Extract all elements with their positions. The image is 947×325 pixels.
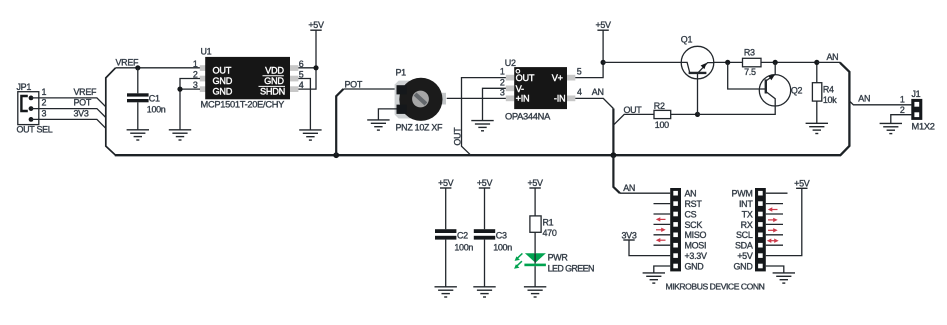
svg-text:R1: R1	[543, 217, 554, 227]
svg-text:7.5: 7.5	[744, 67, 756, 77]
wire U2 OUT down to bus	[462, 78, 508, 156]
svg-text:C1: C1	[149, 94, 160, 104]
U2 pin pads	[506, 75, 576, 101]
connector JP1 OUT SEL	[17, 82, 53, 134]
svg-text:AN: AN	[827, 52, 839, 62]
svg-text:5: 5	[577, 67, 582, 77]
svg-text:TX: TX	[742, 209, 753, 219]
power +5V at R1	[527, 178, 543, 188]
wire +5V to C2	[445, 188, 447, 229]
wire +5V to C3	[484, 188, 486, 229]
svg-text:Q2: Q2	[791, 86, 803, 96]
U1 pin pads	[200, 65, 299, 92]
svg-text:3: 3	[42, 109, 47, 119]
wire SDA stub	[766, 244, 783, 246]
ground under U1 pins 2,3	[169, 130, 191, 140]
svg-text:GND: GND	[685, 261, 705, 271]
power +5V at C3	[477, 178, 493, 188]
wire R4 top	[816, 62, 818, 82]
svg-text:4: 4	[577, 87, 582, 97]
svg-text:JP1: JP1	[17, 82, 32, 92]
arrow RX right	[768, 218, 778, 222]
wire rail to Q1	[603, 61, 681, 63]
wire SCL stub	[766, 234, 783, 236]
wire +5V to U1 pin6 and pin4	[298, 30, 316, 89]
svg-text:+5V: +5V	[308, 20, 324, 30]
wire R4 to ground	[816, 101, 818, 123]
node junction U1 pin6 +5V	[313, 65, 318, 70]
svg-text:AN: AN	[685, 189, 697, 199]
node junction +5V rail	[601, 60, 606, 65]
svg-text:VDD: VDD	[265, 65, 284, 75]
wire AN to header	[620, 192, 670, 194]
node junction bus/AN vertical	[611, 152, 617, 158]
wire P1 wiper to U2 +IN	[447, 97, 506, 99]
svg-text:OUT: OUT	[624, 105, 643, 115]
ground under R4	[806, 123, 828, 133]
svg-text:+5V: +5V	[527, 178, 543, 188]
svg-text:U2: U2	[505, 58, 516, 68]
svg-text:1: 1	[900, 94, 905, 104]
mikrobus right header	[755, 188, 766, 271]
svg-text:100n: 100n	[454, 242, 473, 252]
wire U2 pin4 AN down	[575, 98, 613, 108]
ground under J1	[880, 123, 902, 133]
wire J1 pin2 to ground	[891, 115, 912, 124]
svg-text:MISO: MISO	[685, 230, 707, 240]
wire +5V to R1	[534, 188, 536, 216]
arrow SCL right	[768, 228, 778, 232]
U1 body	[205, 57, 290, 99]
svg-text:1: 1	[42, 87, 47, 97]
wire bus bottom	[115, 154, 841, 156]
wire C2 to ground	[445, 240, 447, 287]
wire 3V3 to +3.3V pin	[629, 240, 670, 256]
svg-text:2: 2	[900, 105, 905, 115]
svg-text:VREF: VREF	[74, 87, 97, 97]
svg-text:+5V: +5V	[794, 178, 810, 188]
svg-text:2: 2	[42, 98, 47, 108]
wire VREF to C1	[137, 68, 139, 94]
power +5V at C2	[438, 178, 454, 188]
svg-text:POT: POT	[74, 98, 92, 108]
mikrobus left labels	[685, 189, 707, 272]
svg-text:100n: 100n	[493, 242, 512, 252]
wire U1 pin3	[180, 88, 200, 90]
svg-text:LED GREEN: LED GREEN	[548, 263, 594, 273]
arrow SDA both	[767, 239, 779, 243]
svg-text:Q1: Q1	[681, 34, 693, 44]
wire AN vertical to bus	[612, 109, 614, 156]
wire left GND to ground	[654, 266, 670, 273]
svg-text:+5V: +5V	[477, 178, 493, 188]
wire POT to P1	[343, 88, 397, 90]
resistor R3	[743, 47, 762, 77]
svg-text:VREF: VREF	[116, 57, 139, 67]
wire AN down to mikrobus	[613, 155, 620, 193]
ground under LED	[524, 287, 546, 297]
svg-text:GND: GND	[213, 86, 233, 96]
svg-text:-IN: -IN	[554, 94, 566, 104]
svg-text:1: 1	[193, 59, 198, 69]
svg-text:+5V: +5V	[737, 251, 753, 261]
svg-text:1: 1	[500, 67, 505, 77]
svg-text:C2: C2	[457, 230, 468, 240]
svg-text:RST: RST	[685, 199, 703, 209]
svg-text:PWM: PWM	[732, 189, 753, 199]
svg-text:PWR: PWR	[548, 252, 569, 262]
wire U1 pin5 to ground	[298, 79, 310, 130]
wire PWM stub	[766, 192, 788, 194]
resistor R4	[812, 83, 837, 105]
wire right GND to ground	[766, 266, 784, 273]
svg-text:J1: J1	[912, 89, 921, 99]
ground under U2 pin2	[471, 121, 493, 131]
svg-text:SHDN: SHDN	[260, 86, 285, 96]
svg-text:OUT SEL: OUT SEL	[17, 124, 53, 134]
svg-text:10k: 10k	[823, 95, 837, 105]
svg-text:CS: CS	[685, 209, 697, 219]
potentiometer P1	[395, 68, 446, 133]
svg-text:470: 470	[543, 228, 557, 238]
resistor R2	[654, 101, 671, 130]
node junction R2/Q1 base/Q2 collector	[695, 112, 700, 117]
svg-text:OPA344NA: OPA344NA	[505, 111, 551, 121]
svg-text:MCP1501T-20E/CHY: MCP1501T-20E/CHY	[201, 100, 285, 110]
wire C3 to ground	[484, 240, 486, 287]
wire MOSI stub	[654, 244, 671, 246]
wire U1 pin2 to pin3 join	[180, 79, 200, 130]
wire R1 to LED	[534, 232, 536, 253]
svg-text:+5V: +5V	[438, 178, 454, 188]
node junction R3/Q2 emitter	[773, 60, 778, 65]
svg-text:OUT: OUT	[452, 127, 462, 146]
svg-text:U1: U1	[201, 47, 212, 57]
capacitor C3	[474, 229, 512, 252]
arrow SCK left	[656, 217, 666, 221]
node junction C1/VREF	[135, 65, 140, 70]
node junction R4/AN	[814, 60, 819, 65]
wire P1 lower terminal to ground	[378, 109, 396, 120]
svg-text:100: 100	[655, 120, 669, 130]
U2 body	[514, 67, 567, 109]
svg-text:AN: AN	[592, 87, 604, 97]
wire AN rail to right trunk	[817, 61, 841, 63]
svg-text:GND: GND	[264, 76, 284, 86]
svg-text:+IN: +IN	[516, 94, 530, 104]
capacitor C1	[127, 93, 166, 114]
svg-text:MIKROBUS DEVICE CONN: MIKROBUS DEVICE CONN	[666, 282, 765, 292]
node junction bus/POT riser	[333, 152, 339, 158]
wire JP1 pin3	[31, 119, 106, 128]
wire MISO stub	[654, 234, 671, 236]
svg-text:OUT: OUT	[516, 73, 535, 83]
power +5V at mikrobus	[794, 178, 810, 188]
wire SCK stub	[654, 223, 671, 225]
svg-text:P1: P1	[396, 68, 407, 78]
svg-text:3V3: 3V3	[621, 230, 636, 240]
svg-text:GND: GND	[213, 76, 233, 86]
ground under C3	[473, 287, 495, 297]
wire VREF rail	[116, 67, 201, 69]
wire R2 to junction	[671, 113, 698, 115]
svg-text:POT: POT	[345, 79, 363, 89]
arrow MISO right	[656, 228, 666, 232]
wire AN tap to J1	[849, 101, 911, 105]
ground under U1 pin5	[299, 130, 321, 140]
wire JP1 pin2	[31, 109, 106, 118]
svg-text:INT: INT	[739, 199, 753, 209]
connector J1	[911, 89, 934, 132]
wire trunk left (jumper common riser)	[106, 68, 116, 155]
wire TX stub	[766, 213, 783, 215]
ground under C2	[435, 287, 457, 297]
svg-text:AN: AN	[623, 183, 635, 193]
wire right trunk	[840, 63, 849, 156]
wire U1 pin6	[298, 67, 316, 69]
svg-text:R3: R3	[744, 47, 755, 57]
svg-text:C3: C3	[496, 230, 507, 240]
node junction Q1/R3/Q2 base	[725, 60, 730, 65]
svg-text:SCK: SCK	[685, 220, 703, 230]
svg-text:+3.3V: +3.3V	[685, 251, 707, 261]
wire +5V down to rail and U2 V+	[575, 30, 603, 77]
svg-text:V+: V+	[552, 73, 563, 83]
svg-text:3V3: 3V3	[74, 109, 89, 119]
wire Q1 emitter to R3	[714, 61, 743, 63]
ground under left header	[643, 273, 665, 283]
wire INT stub	[766, 203, 783, 205]
svg-text:+5V: +5V	[595, 20, 611, 30]
wire +5V to +5V pin	[766, 188, 802, 255]
svg-text:MOSI: MOSI	[685, 241, 707, 251]
svg-text:3: 3	[500, 88, 505, 98]
power 3V3 at mikrobus	[621, 230, 636, 240]
svg-text:RX: RX	[741, 220, 753, 230]
svg-text:SCL: SCL	[736, 230, 753, 240]
ground under P1	[367, 120, 389, 130]
svg-text:R2: R2	[654, 101, 665, 111]
wire OUT tap	[613, 114, 654, 125]
mikrobus left header	[670, 188, 681, 271]
svg-text:OUT: OUT	[213, 65, 232, 75]
transistor Q2	[698, 62, 803, 114]
svg-text:100n: 100n	[147, 105, 166, 115]
ground under C1	[127, 130, 149, 140]
wire Q2 base	[728, 62, 760, 89]
svg-text:R4: R4	[823, 85, 834, 95]
svg-text:PNZ 10Z XF: PNZ 10Z XF	[396, 122, 444, 132]
wire through LED	[534, 253, 536, 263]
wire LED to ground	[534, 266, 536, 287]
arrow TX left	[768, 207, 778, 211]
wire JP1 pin1	[31, 98, 106, 107]
svg-text:SDA: SDA	[735, 241, 753, 251]
svg-text:2: 2	[500, 77, 505, 87]
capacitor C2	[435, 229, 473, 252]
wire RST stub	[654, 203, 671, 205]
LED D1 green	[514, 252, 594, 273]
wire R3 to AN rail	[761, 61, 817, 63]
power +5V at U2	[595, 20, 611, 30]
ground under right header	[773, 273, 795, 283]
svg-text:AN: AN	[858, 94, 870, 104]
transistor Q1	[681, 34, 714, 114]
resistor R1	[530, 216, 557, 238]
power +5V at U1	[308, 20, 324, 30]
arrow MOSI left	[656, 238, 666, 242]
wire C1 to ground	[137, 102, 139, 130]
wire RX stub	[766, 223, 783, 225]
mikrobus right labels	[732, 189, 754, 272]
svg-text:GND: GND	[734, 261, 754, 271]
node junction U1 gnd pins	[177, 87, 182, 92]
svg-text:M1X2: M1X2	[912, 122, 935, 132]
wire POT riser	[336, 89, 343, 155]
wire U2 V- to ground	[483, 88, 508, 120]
wire CS stub	[654, 213, 671, 215]
